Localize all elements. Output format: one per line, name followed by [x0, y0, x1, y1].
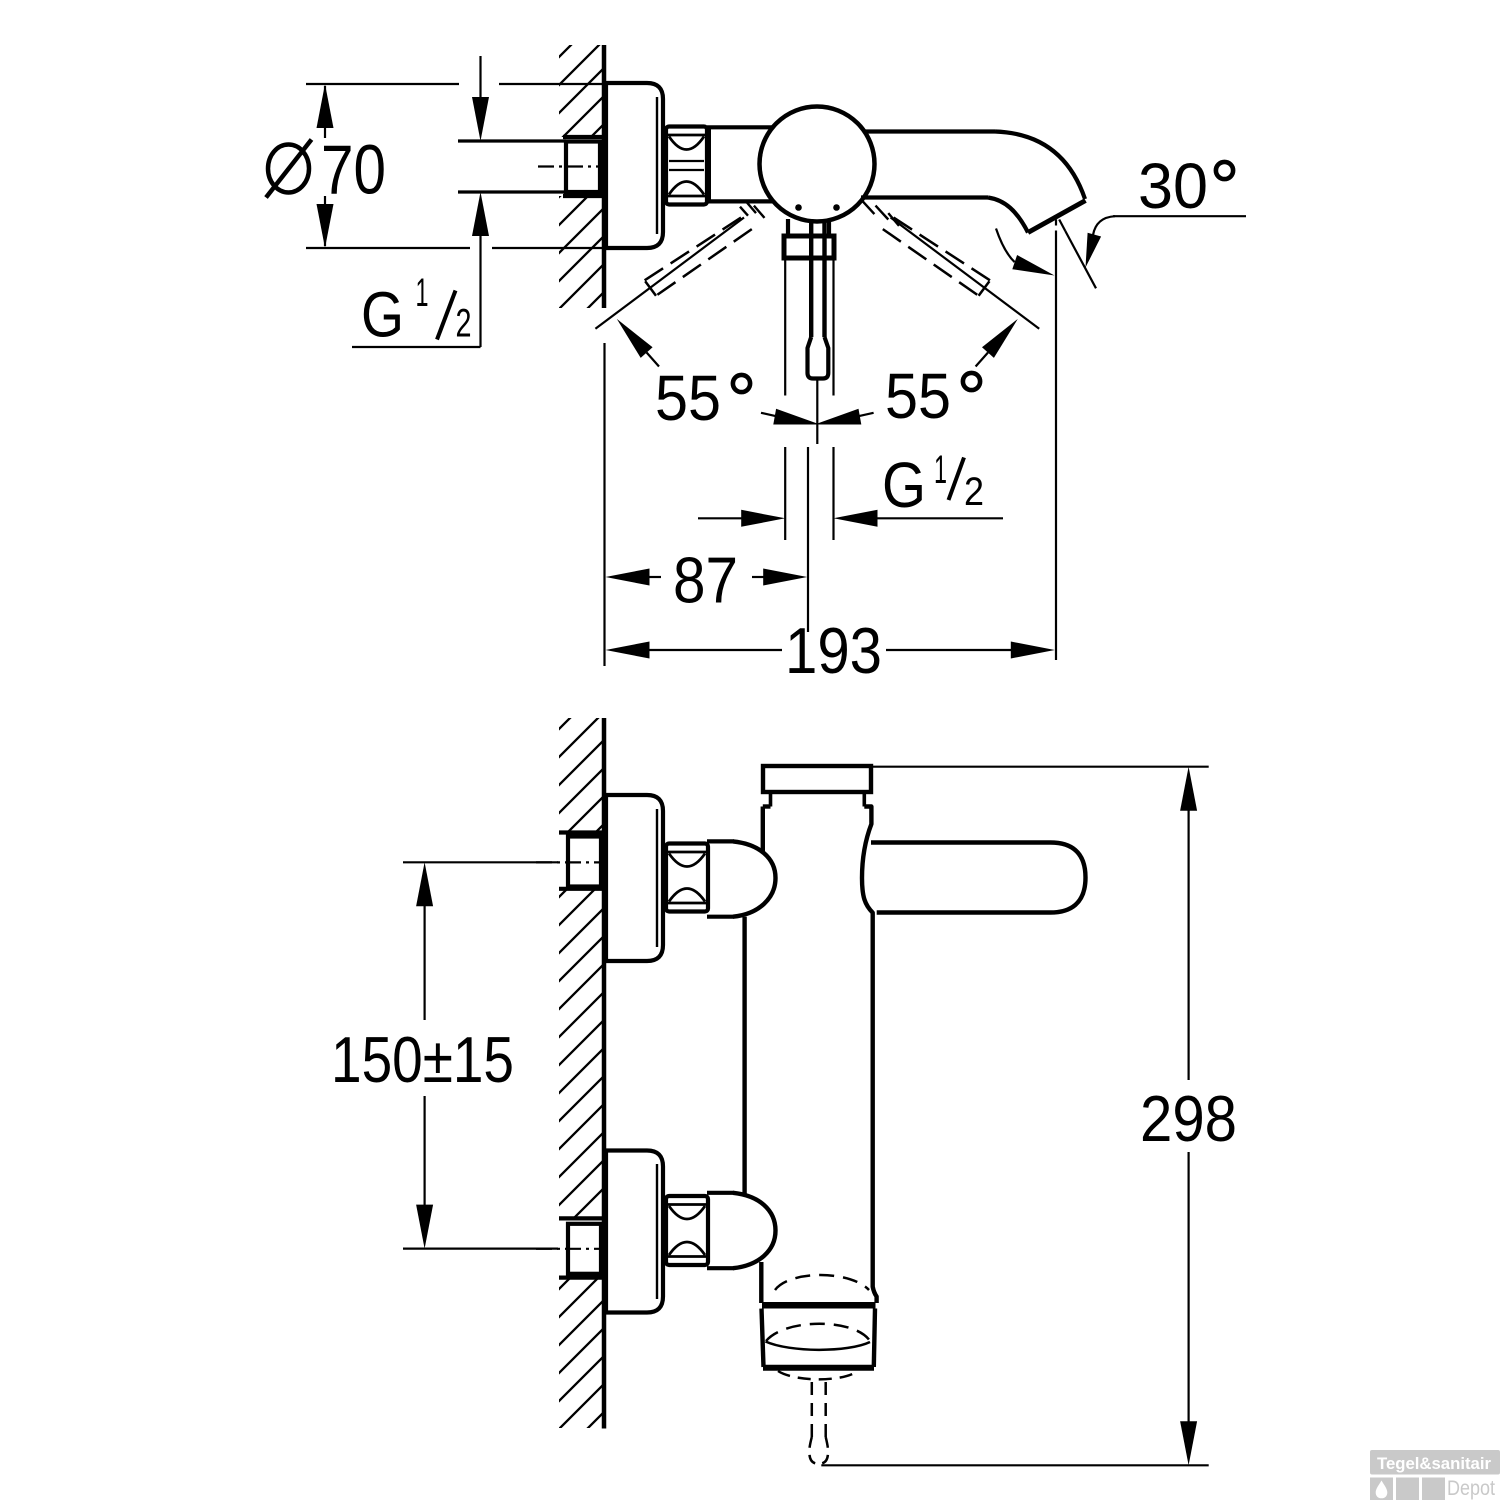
label 30deg — [1138, 150, 1233, 222]
lower union dome — [707, 1193, 776, 1303]
dim 150 extension bottom — [403, 1247, 558, 1249]
svg-text:298: 298 — [1140, 1082, 1237, 1155]
lever centre line — [816, 380, 818, 444]
svg-text:150±15: 150±15 — [331, 1023, 514, 1096]
shadow hatches beside ball — [740, 201, 899, 226]
lower wall hole edges — [559, 1218, 604, 1277]
55deg leader arrow (left) — [617, 319, 659, 367]
watermark depot text — [1447, 1477, 1495, 1500]
label G1/2 (top) — [361, 271, 472, 351]
lever neck (top view) — [788, 219, 829, 236]
escutcheon (top view) — [606, 83, 663, 248]
aerator dashed outline — [809, 1382, 828, 1464]
svg-text:Depot: Depot — [1447, 1477, 1495, 1500]
extension line right (193) — [1055, 220, 1057, 661]
wall line (side view) — [602, 718, 607, 1429]
spout joint line — [762, 1302, 876, 1309]
label 55deg right — [885, 360, 980, 432]
dim Ø70 extension line top — [306, 83, 606, 85]
internal ball dashed arc lower — [766, 1324, 870, 1341]
dim 298 extension bottom — [821, 1464, 1208, 1466]
lever collar extension lines — [785, 260, 833, 396]
label 55deg left — [655, 362, 750, 434]
svg-text:2: 2 — [456, 302, 472, 346]
rotated lever dashed (left) — [644, 218, 751, 296]
lower hex nut (side view) — [666, 1196, 708, 1265]
square union end (top view) — [566, 142, 600, 193]
body left outline + upper union dome — [707, 807, 776, 917]
svg-text:Tegel&sanitair: Tegel&sanitair — [1377, 1454, 1491, 1473]
30deg rotated face line — [1059, 220, 1096, 289]
dim 87 — [606, 569, 808, 586]
svg-text:30: 30 — [1138, 150, 1208, 222]
spout top edge (top view) — [864, 129, 995, 133]
svg-text:1: 1 — [416, 271, 429, 315]
watermark title — [1377, 1454, 1491, 1473]
spout inner curve (top view) — [988, 198, 1028, 233]
lower inlet centre line — [536, 1248, 616, 1250]
label 193 — [785, 614, 882, 687]
wall hatch band 2 (side view) — [559, 889, 604, 1218]
watermark box — [1370, 1450, 1500, 1475]
55deg leader arrow (right) — [976, 319, 1018, 367]
upper hex nut (side view) — [666, 844, 708, 912]
wall hatch band 3 (side view) — [559, 1278, 604, 1428]
body right outline — [862, 807, 877, 1304]
svg-text:55: 55 — [655, 362, 721, 434]
hex nut (top view) — [666, 127, 707, 205]
inlet pipe wall lines (top view) — [458, 141, 566, 192]
spout outlet face (top view) — [1028, 201, 1086, 233]
wall hatch upper band (top view) — [559, 45, 604, 137]
dim G1/2 pointer line (top) — [472, 56, 489, 347]
svg-text:2: 2 — [964, 470, 984, 514]
lever (side view) — [871, 843, 1086, 913]
spout outer curve (top view) — [995, 132, 1085, 200]
wall line (top view) — [602, 45, 607, 308]
svg-text:87: 87 — [673, 544, 738, 617]
dim 193 — [606, 642, 1055, 659]
wall hatch band 1 (side view) — [559, 718, 604, 832]
lower escutcheon (side view) — [606, 1151, 663, 1313]
svg-text:1: 1 — [934, 448, 947, 492]
lever tip (top view) — [808, 337, 829, 379]
dashed arc below outlet — [778, 1371, 857, 1379]
dim G1/2 handle thread — [698, 510, 1003, 527]
upper escutcheon (side view) — [606, 795, 663, 961]
extension line left (87/193) — [603, 343, 605, 666]
svg-text:G: G — [882, 449, 926, 521]
dim G1/2 leader (top) — [352, 346, 481, 348]
body tube (top view) — [707, 127, 773, 201]
wall hole edge bottom (top view) — [563, 194, 604, 198]
dim Ø70 extension line bottom — [306, 247, 606, 249]
label 87 — [673, 544, 738, 617]
lever collar (top view) — [784, 236, 834, 258]
ball housing (top view) — [760, 107, 875, 222]
watermark drop icon — [1376, 1481, 1388, 1499]
55deg axis line (right) — [891, 218, 1040, 329]
label 150+-15 — [331, 1023, 514, 1096]
svg-text:G: G — [361, 279, 404, 351]
30deg underline — [1113, 215, 1246, 217]
rotated lever dashed (right) — [883, 218, 990, 296]
label G1/2 (bottom) — [882, 448, 984, 521]
spout bottom edge (top view) — [861, 195, 988, 199]
wall hatch lower band (top view) — [559, 196, 604, 308]
body tube left edge — [742, 917, 746, 1197]
cartridge cap band — [771, 792, 865, 807]
dim 298 line+arrows — [1180, 767, 1197, 1466]
label Ø70 — [266, 131, 386, 209]
lower square union — [568, 1224, 601, 1274]
svg-text:55: 55 — [885, 360, 951, 432]
watermark squares — [1370, 1478, 1445, 1500]
wall hole edge top (top view) — [563, 135, 604, 139]
30deg leader arc+arrow — [1086, 216, 1116, 267]
internal ball dashed arc upper — [775, 1275, 869, 1290]
cartridge cap disc — [763, 766, 871, 792]
ball screw dots — [795, 204, 840, 211]
dim Ø70 line+arrows — [317, 84, 334, 248]
internal ball solid arc — [766, 1342, 871, 1350]
upper square union — [568, 837, 601, 887]
dim 298 extension top — [871, 766, 1209, 768]
dim 150 extension top — [403, 861, 558, 863]
55deg vertex arrows — [761, 409, 874, 425]
55deg axis line (left) — [595, 218, 744, 329]
centre axis extension (87) — [807, 447, 809, 632]
upper inlet centre line — [536, 861, 616, 863]
inlet centre line (top view) — [538, 165, 614, 167]
extension lines G1/2 dim — [785, 447, 833, 540]
lever shaft (top view) — [811, 219, 824, 337]
spout swing arc+arrow — [996, 229, 1055, 276]
label 298 — [1140, 1082, 1237, 1155]
upper wall hole edges — [559, 833, 604, 889]
spout outlet body — [762, 1309, 876, 1368]
svg-text:70: 70 — [321, 131, 386, 209]
dim 150 line+arrows — [416, 862, 433, 1248]
svg-text:193: 193 — [785, 614, 882, 687]
